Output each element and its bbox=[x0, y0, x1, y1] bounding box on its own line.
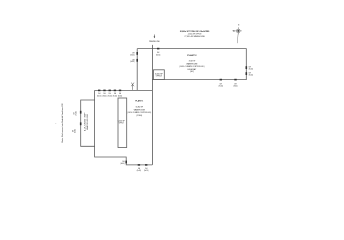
svg-text:DH: DH bbox=[114, 93, 116, 95]
warehouse annex rectangle (left of plant 1) bbox=[81, 100, 95, 146]
svg-text:WAREHOUSE: WAREHOUSE bbox=[134, 108, 146, 111]
plant 1 top wall dock door D2 label bbox=[102, 93, 107, 97]
svg-text:DH: DH bbox=[98, 93, 100, 95]
svg-text:(9x10): (9x10) bbox=[249, 69, 254, 71]
svg-text:DH: DH bbox=[132, 52, 134, 54]
svg-text:WAREHOUSE: WAREHOUSE bbox=[186, 62, 198, 65]
plant 2 office box bbox=[154, 70, 165, 80]
plant 2 left wall door L1 ticks bbox=[136, 52, 138, 55]
compass west arrowhead bbox=[232, 30, 234, 31]
plant 1 bottom wall door D7 ticks bbox=[145, 164, 147, 166]
svg-text:(9x10): (9x10) bbox=[113, 95, 118, 97]
svg-text:(9x10): (9x10) bbox=[144, 170, 149, 172]
plant 2 left wall door L2 ticks bbox=[136, 59, 138, 62]
svg-text:DH: DH bbox=[220, 83, 222, 85]
annex left wall door DH2 rotated label bbox=[72, 128, 76, 133]
svg-text:DH: DH bbox=[157, 52, 159, 54]
annex left wall door DH1 ticks bbox=[80, 111, 82, 114]
plant 1 bottom wall door D6 ticks bbox=[138, 164, 140, 166]
svg-text:(9x10): (9x10) bbox=[108, 95, 113, 97]
svg-text:(9x10): (9x10) bbox=[130, 54, 135, 56]
svg-text:(9x10): (9x10) bbox=[74, 128, 76, 133]
svg-text:(9x10): (9x10) bbox=[75, 111, 77, 116]
plant 1 notch wall door DH ticks bbox=[125, 161, 127, 164]
svg-text:(30'): (30') bbox=[190, 71, 194, 73]
north arrow compass bbox=[235, 27, 242, 43]
plant 1 text block bbox=[127, 100, 151, 117]
svg-text:Note: Rail served via Norfolk: Note: Rail served via Norfolk Southern R… bbox=[61, 103, 64, 143]
plant 1 office box bbox=[118, 98, 127, 148]
svg-text:56,862 SF: 56,862 SF bbox=[136, 107, 144, 109]
plant 2 left wall door L2 label bbox=[130, 59, 135, 63]
plant 2 bottom wall door B2 label bbox=[233, 83, 238, 87]
plant 1 top wall dock door D1 ticks bbox=[98, 90, 100, 92]
svg-text:77,362± SF WAREHOUSE: 77,362± SF WAREHOUSE bbox=[184, 35, 205, 38]
svg-text:DH: DH bbox=[234, 83, 236, 85]
plant 2 top wall door ticks bbox=[157, 48, 159, 50]
plant 2 bottom wall door B1 ticks bbox=[220, 79, 222, 81]
svg-text:70,567 SF: 70,567 SF bbox=[189, 60, 196, 62]
premise line (vertical boundary, plant 1 right wall) bbox=[151, 45, 153, 165]
plant 1 bottom wall door D6 label bbox=[137, 168, 142, 172]
yard pole symbol (X on post) bbox=[131, 83, 134, 90]
plant 1 top wall dock door D5 ticks bbox=[119, 90, 121, 92]
svg-text:(9x10): (9x10) bbox=[249, 75, 254, 77]
annex left wall door DH2 ticks bbox=[80, 122, 82, 125]
svg-text:DH: DH bbox=[72, 130, 74, 132]
svg-text:DH: DH bbox=[138, 168, 140, 170]
annex rotated label: 12,000 SF WAREHOUSE bbox=[85, 110, 89, 131]
plant 1 top wall dock door D1 label bbox=[97, 93, 102, 97]
svg-text:(9x10): (9x10) bbox=[233, 86, 238, 88]
plant 1 office label bbox=[118, 120, 126, 124]
plant 1 building outline bbox=[95, 90, 153, 164]
svg-text:(9x10): (9x10) bbox=[120, 163, 125, 165]
svg-text:(9x10): (9x10) bbox=[219, 86, 224, 88]
plant 2 bottom wall door B2 ticks bbox=[234, 79, 236, 81]
plant 2 office label bbox=[155, 73, 164, 77]
site summary text block bbox=[180, 30, 210, 38]
svg-text:(9x10): (9x10) bbox=[137, 170, 142, 172]
plant 2 right wall door R1 ticks bbox=[246, 66, 248, 69]
plant 1 top wall dock door D3 ticks bbox=[109, 90, 111, 92]
plant 2 left wall door L1 label bbox=[130, 52, 135, 56]
compass north letter bbox=[238, 25, 240, 27]
plant 2 text block bbox=[179, 54, 204, 73]
plant 2 right wall door R2 label bbox=[249, 73, 254, 77]
svg-text:DH: DH bbox=[73, 112, 75, 114]
plant 1 top wall dock door D3 label bbox=[108, 93, 113, 97]
plant 1 top wall dock door D4 label bbox=[113, 93, 118, 97]
svg-text:(9x10): (9x10) bbox=[97, 95, 102, 97]
premise line label bbox=[149, 41, 160, 43]
svg-text:DH: DH bbox=[103, 93, 105, 95]
svg-text:DH: DH bbox=[122, 161, 124, 163]
svg-text:DH: DH bbox=[249, 67, 251, 69]
plant 2 right wall door R2 ticks bbox=[246, 72, 248, 75]
plant 2 right wall door R1 label bbox=[249, 67, 254, 71]
svg-text:(9x10): (9x10) bbox=[102, 95, 107, 97]
svg-text:(1960): (1960) bbox=[137, 115, 143, 117]
svg-text:DH: DH bbox=[249, 73, 251, 75]
svg-text:(100% CLIMATE CONTROLLED): (100% CLIMATE CONTROLLED) bbox=[179, 65, 204, 68]
svg-text:DH: DH bbox=[145, 168, 147, 170]
plant 1 top wall dock door D4 ticks bbox=[114, 90, 116, 92]
svg-text:81,862± SF TOTAL ON 5.18± ACRE: 81,862± SF TOTAL ON 5.18± ACRES bbox=[180, 30, 210, 33]
compass center hub bbox=[238, 30, 240, 32]
premise line down arrow bbox=[154, 35, 156, 39]
plant 1 top wall dock door D2 ticks bbox=[103, 90, 105, 92]
plant 2 building outline bbox=[137, 49, 246, 91]
svg-text:WAREHOUSE: WAREHOUSE bbox=[86, 113, 89, 130]
annex left wall door DH1 rotated label bbox=[73, 111, 77, 116]
plant 2 bottom wall door B1 label bbox=[219, 83, 224, 87]
svg-text:(9x10): (9x10) bbox=[130, 61, 135, 63]
svg-text:(100% CLIMATE CONTROLLED): (100% CLIMATE CONTROLLED) bbox=[127, 111, 151, 114]
svg-text:PREMISE LINE: PREMISE LINE bbox=[149, 41, 160, 43]
svg-text:PLANT 2: PLANT 2 bbox=[187, 54, 197, 57]
svg-text:DH: DH bbox=[119, 93, 121, 95]
plant 1 top wall dock door D5 label bbox=[118, 93, 123, 97]
svg-text:PLANT 1: PLANT 1 bbox=[135, 100, 144, 103]
plant 1 notch wall door DH label bbox=[120, 161, 125, 165]
plant 1 bottom wall door D7 label bbox=[144, 168, 149, 172]
svg-text:DH: DH bbox=[132, 59, 134, 61]
plant 2 top wall door label bbox=[156, 52, 161, 56]
svg-text:DH: DH bbox=[109, 93, 111, 95]
site note (rotated, left margin) bbox=[56, 103, 64, 143]
svg-text:(9x10): (9x10) bbox=[156, 55, 161, 57]
svg-text:OFFICE: OFFICE bbox=[156, 76, 163, 78]
svg-text:(9x10): (9x10) bbox=[118, 95, 123, 97]
svg-text:OFFICE: OFFICE bbox=[119, 123, 125, 125]
